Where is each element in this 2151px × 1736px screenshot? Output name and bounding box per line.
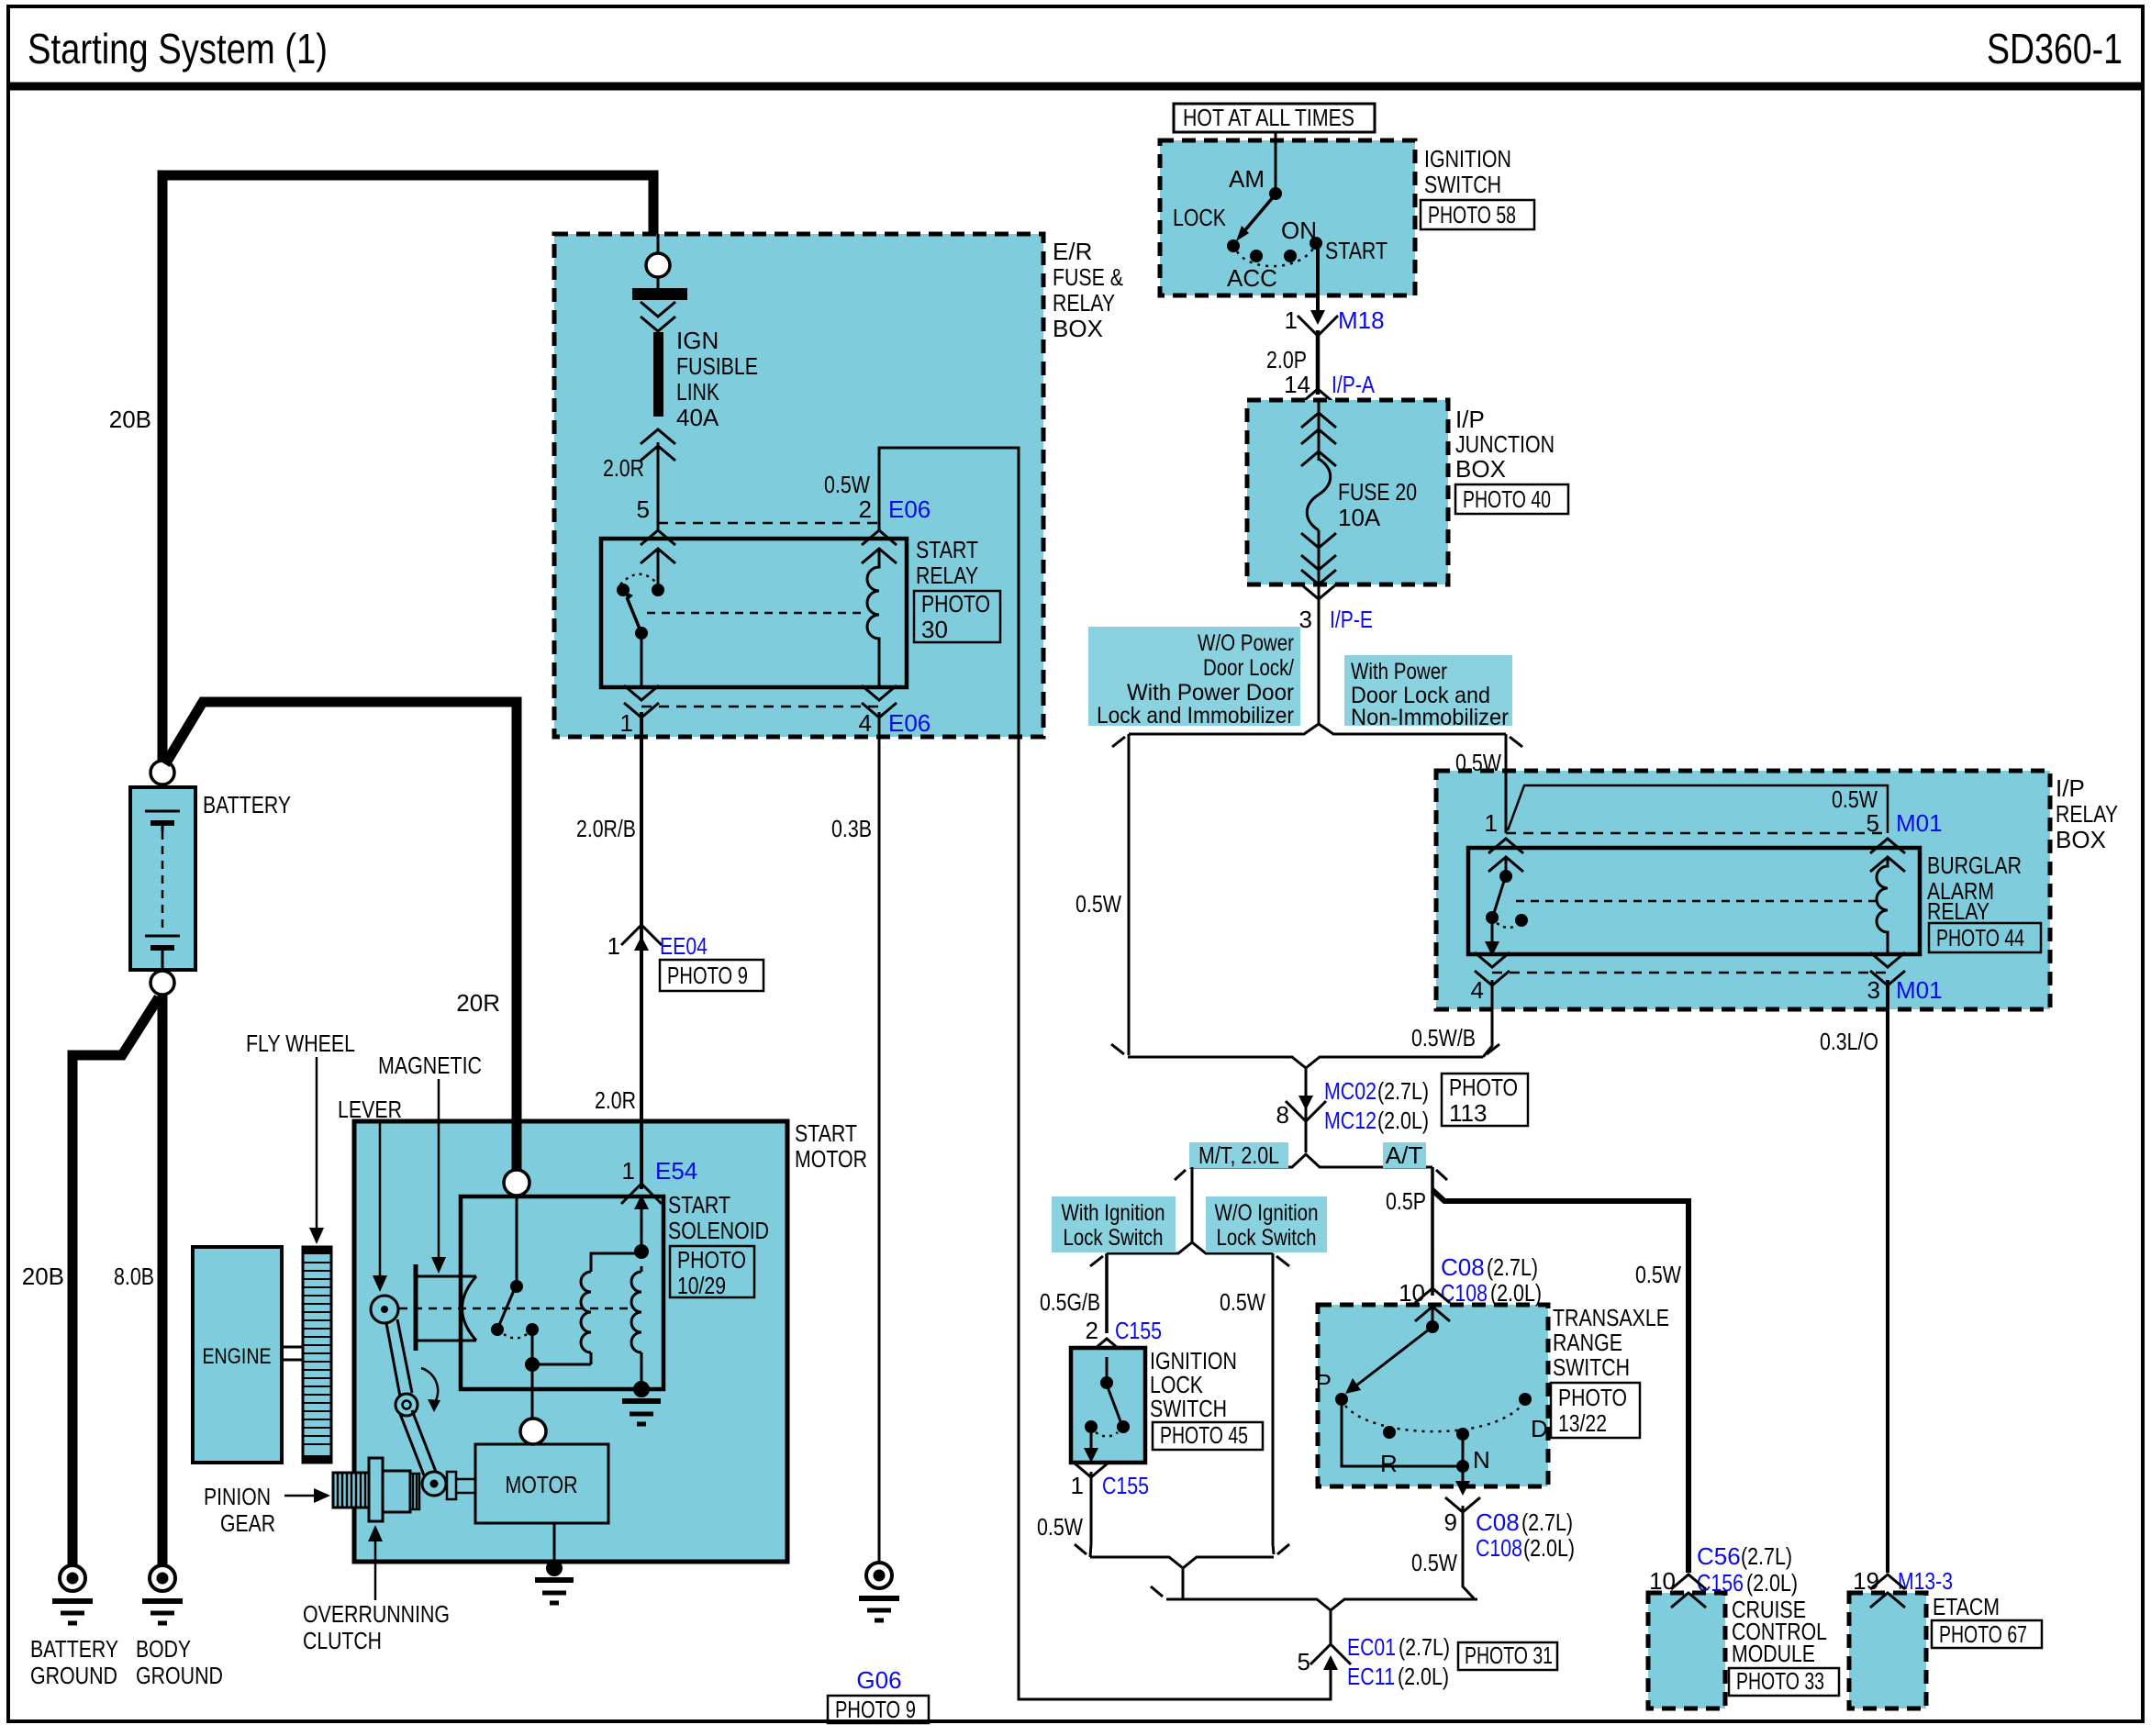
svg-text:E/R: E/R bbox=[1053, 238, 1092, 265]
svg-text:PINION: PINION bbox=[204, 1483, 271, 1510]
svg-text:PHOTO: PHOTO bbox=[921, 590, 990, 618]
svg-text:Non-Immobilizer: Non-Immobilizer bbox=[1351, 705, 1509, 730]
svg-text:10A: 10A bbox=[1338, 504, 1381, 531]
svg-text:With Ignition: With Ignition bbox=[1062, 1200, 1165, 1226]
label M/T, 2.0L bbox=[1189, 1142, 1288, 1168]
connector row E06 top bbox=[658, 522, 879, 525]
svg-text:ENGINE: ENGINE bbox=[203, 1344, 272, 1369]
svg-text:W/O Power: W/O Power bbox=[1198, 630, 1294, 656]
svg-text:20B: 20B bbox=[22, 1263, 64, 1290]
svg-text:(2.0L): (2.0L) bbox=[1746, 1569, 1798, 1597]
svg-text:Starting System (1): Starting System (1) bbox=[28, 25, 328, 72]
connector EC01/EC11 bbox=[1310, 1644, 1351, 1670]
svg-text:FUSIBLE: FUSIBLE bbox=[676, 352, 758, 380]
wire split bus bbox=[1129, 724, 1506, 734]
wire 0.5W right branch bbox=[1505, 734, 1508, 773]
fusible link IGN FUSIBLE LINK 40A bbox=[653, 332, 663, 417]
svg-text:13/22: 13/22 bbox=[1558, 1409, 1607, 1437]
svg-text:PHOTO 45: PHOTO 45 bbox=[1160, 1421, 1248, 1449]
svg-text:I/P-E: I/P-E bbox=[1330, 606, 1373, 633]
svg-text:ACC: ACC bbox=[1227, 264, 1277, 292]
wire 20R inside start motor bbox=[512, 1121, 522, 1172]
relay coil bbox=[867, 549, 879, 687]
svg-text:PHOTO: PHOTO bbox=[677, 1246, 746, 1274]
svg-text:SD360-1: SD360-1 bbox=[1987, 25, 2123, 72]
motor MOTOR bbox=[475, 1444, 608, 1523]
svg-text:Lock Switch: Lock Switch bbox=[1064, 1225, 1164, 1251]
wire 0.5P to cruise bbox=[1432, 1190, 1688, 1573]
solenoid hold coil bbox=[631, 1272, 641, 1352]
wire 0.5G/B bbox=[1105, 1253, 1109, 1333]
connector M18 bbox=[1298, 310, 1338, 336]
svg-text:PHOTO 40: PHOTO 40 bbox=[1463, 485, 1551, 513]
ground G06 bbox=[859, 1563, 899, 1620]
contact LOCK bbox=[1227, 239, 1240, 252]
svg-text:0.5W: 0.5W bbox=[824, 471, 870, 498]
wire and chevrons into fuse bbox=[1318, 400, 1321, 461]
svg-text:W/O Ignition: W/O Ignition bbox=[1215, 1200, 1319, 1226]
connector chevrons C155 pin 2 bbox=[1089, 1339, 1124, 1353]
svg-text:MAGNETIC: MAGNETIC bbox=[378, 1052, 482, 1079]
svg-text:A/T: A/T bbox=[1386, 1141, 1423, 1169]
svg-text:N: N bbox=[1473, 1446, 1490, 1474]
svg-text:BOX: BOX bbox=[1455, 455, 1506, 483]
svg-text:FUSE &: FUSE & bbox=[1053, 263, 1123, 291]
svg-text:PHOTO 31: PHOTO 31 bbox=[1465, 1641, 1553, 1669]
relay pin chevrons 4 and 3 bbox=[1475, 952, 1510, 967]
svg-text:8.0B: 8.0B bbox=[114, 1263, 154, 1290]
svg-text:4: 4 bbox=[859, 709, 872, 737]
svg-text:3: 3 bbox=[1867, 976, 1880, 1004]
svg-text:0.3L/O: 0.3L/O bbox=[1820, 1028, 1878, 1055]
ground body ground bbox=[142, 1565, 183, 1623]
svg-text:I/P: I/P bbox=[1455, 406, 1485, 433]
solenoid START SOLENOID bbox=[461, 1196, 663, 1389]
wire 0.5W W/O branch bbox=[1273, 1253, 1274, 1554]
svg-text:IGN: IGN bbox=[676, 327, 719, 354]
wire 0.5W runner from relay pin2 down page to EC01 bbox=[879, 448, 1331, 1699]
svg-text:PHOTO 58: PHOTO 58 bbox=[1428, 201, 1516, 228]
svg-text:BATTERY: BATTERY bbox=[203, 791, 291, 818]
svg-text:IGNITION: IGNITION bbox=[1424, 145, 1511, 172]
svg-text:(2.7L): (2.7L) bbox=[1741, 1542, 1792, 1570]
svg-text:5: 5 bbox=[637, 495, 650, 523]
svg-text:JUNCTION: JUNCTION bbox=[1455, 430, 1555, 458]
lock switch contacts bbox=[1106, 1357, 1109, 1378]
connector chevrons below terminal bbox=[641, 302, 675, 317]
lever arm bbox=[371, 1296, 398, 1323]
svg-text:1: 1 bbox=[607, 932, 620, 960]
contact ACC bbox=[1250, 250, 1263, 262]
engine ENGINE bbox=[193, 1247, 282, 1463]
wire below EC01 bbox=[1330, 1663, 1332, 1699]
relay pin chevrons 5 and 2 bbox=[641, 530, 675, 545]
node B+ terminal bbox=[504, 1170, 529, 1196]
node battery positive terminal bbox=[150, 761, 174, 785]
svg-text:C56: C56 bbox=[1697, 1542, 1741, 1570]
svg-text:G06: G06 bbox=[856, 1666, 901, 1694]
svg-text:BODY: BODY bbox=[136, 1635, 191, 1663]
svg-text:M01: M01 bbox=[1896, 976, 1943, 1004]
svg-text:RELAY: RELAY bbox=[916, 562, 978, 589]
battery BATTERY bbox=[130, 787, 195, 970]
wire 0.3B relay pin4 to ground bbox=[878, 712, 881, 1563]
svg-text:(2.7L): (2.7L) bbox=[1377, 1077, 1429, 1105]
node motor terminal bbox=[520, 1419, 546, 1444]
wire 0.3L/O pin 3 down to ETACM bbox=[1886, 980, 1889, 1573]
rotation arrow bbox=[421, 1368, 438, 1404]
svg-text:2: 2 bbox=[1086, 1317, 1098, 1344]
svg-text:RELAY: RELAY bbox=[1053, 289, 1115, 317]
label A/T bbox=[1383, 1142, 1426, 1168]
pinion gear bbox=[333, 1473, 369, 1508]
svg-text:0.5G/B: 0.5G/B bbox=[1040, 1288, 1100, 1316]
svg-text:(2.0L): (2.0L) bbox=[1490, 1279, 1542, 1307]
svg-text:SOLENOID: SOLENOID bbox=[668, 1217, 769, 1244]
title rule bbox=[8, 83, 2143, 91]
wire 2.0P bbox=[1316, 330, 1321, 395]
svg-text:(2.7L): (2.7L) bbox=[1399, 1633, 1450, 1661]
wire 0.5W/B pin 4 down bbox=[1483, 980, 1492, 1057]
svg-text:0.5P: 0.5P bbox=[1386, 1187, 1426, 1215]
pins 1 and 4 bbox=[624, 685, 659, 700]
svg-text:LEVER: LEVER bbox=[338, 1096, 402, 1123]
svg-text:P: P bbox=[1316, 1369, 1332, 1397]
svg-text:FUSE 20: FUSE 20 bbox=[1338, 478, 1417, 506]
svg-text:CLUTCH: CLUTCH bbox=[303, 1627, 382, 1654]
svg-text:BURGLAR: BURGLAR bbox=[1927, 851, 2022, 879]
svg-text:EE04: EE04 bbox=[660, 932, 708, 960]
node fusible link terminal bbox=[657, 234, 660, 254]
svg-text:TRANSAXLE: TRANSAXLE bbox=[1553, 1304, 1669, 1331]
wire merge bus bbox=[1128, 1057, 1483, 1068]
svg-text:0.5W: 0.5W bbox=[1075, 890, 1121, 918]
svg-text:BATTERY: BATTERY bbox=[30, 1635, 118, 1663]
wire solenoid to motor bbox=[531, 1372, 534, 1419]
svg-text:HOT AT ALL TIMES: HOT AT ALL TIMES bbox=[1183, 104, 1354, 131]
svg-text:30: 30 bbox=[921, 616, 948, 643]
wire merge bus lock switches bbox=[1090, 1557, 1274, 1568]
svg-text:C155: C155 bbox=[1115, 1317, 1162, 1344]
svg-text:D: D bbox=[1531, 1415, 1548, 1442]
svg-text:C108: C108 bbox=[1476, 1534, 1522, 1562]
label With Ignition Lock Switch bbox=[1052, 1196, 1176, 1252]
svg-text:M18: M18 bbox=[1338, 306, 1385, 334]
wire fuse output to I/P-E bbox=[1318, 530, 1321, 725]
svg-text:E06: E06 bbox=[888, 495, 931, 523]
svg-text:BOX: BOX bbox=[1053, 315, 1103, 342]
svg-text:MC12: MC12 bbox=[1324, 1107, 1376, 1134]
svg-text:C08: C08 bbox=[1476, 1508, 1520, 1536]
overrunning clutch assembly bbox=[369, 1458, 475, 1521]
svg-text:PHOTO 9: PHOTO 9 bbox=[835, 1696, 916, 1723]
connector EE04 bbox=[621, 925, 662, 951]
svg-text:5: 5 bbox=[1298, 1648, 1310, 1675]
svg-text:(2.7L): (2.7L) bbox=[1521, 1508, 1573, 1536]
connector chevrons above 2.0R bbox=[641, 429, 675, 444]
svg-text:PHOTO 44: PHOTO 44 bbox=[1936, 924, 2024, 951]
svg-text:PHOTO: PHOTO bbox=[1449, 1074, 1518, 1101]
svg-text:2: 2 bbox=[859, 495, 872, 523]
svg-text:LOCK: LOCK bbox=[1173, 204, 1227, 231]
ground battery ground bbox=[52, 1565, 93, 1623]
ground solenoid bbox=[622, 1381, 661, 1424]
relay pin chevrons 1 and 5 bbox=[1488, 839, 1523, 853]
svg-text:1: 1 bbox=[1285, 306, 1298, 334]
wire 2.0R/B relay pin1 down bbox=[640, 712, 643, 1184]
svg-text:PHOTO: PHOTO bbox=[1558, 1384, 1627, 1411]
svg-text:MOTOR: MOTOR bbox=[506, 1471, 578, 1498]
relay switch contacts bbox=[1505, 857, 1508, 872]
svg-text:113: 113 bbox=[1449, 1099, 1487, 1127]
svg-text:9: 9 bbox=[1444, 1508, 1457, 1536]
wire 0.5W left branch bbox=[1128, 734, 1131, 1055]
svg-text:2.0R: 2.0R bbox=[595, 1086, 636, 1114]
svg-text:(2.7L): (2.7L) bbox=[1487, 1253, 1538, 1281]
svg-text:20B: 20B bbox=[109, 406, 151, 433]
svg-text:3: 3 bbox=[1299, 606, 1312, 633]
svg-text:Lock Switch: Lock Switch bbox=[1217, 1225, 1317, 1251]
relay coil bbox=[1877, 857, 1888, 954]
svg-text:AM: AM bbox=[1229, 165, 1265, 193]
svg-text:40A: 40A bbox=[676, 404, 719, 431]
svg-text:GEAR: GEAR bbox=[220, 1509, 275, 1537]
range switch rotor bbox=[1432, 1307, 1434, 1325]
svg-text:2.0R/B: 2.0R/B bbox=[576, 815, 636, 842]
contact ON/START bbox=[1310, 237, 1322, 250]
svg-text:4: 4 bbox=[1471, 976, 1484, 1004]
svg-text:FLY WHEEL: FLY WHEEL bbox=[246, 1029, 355, 1057]
svg-text:0.5W: 0.5W bbox=[1220, 1288, 1265, 1316]
svg-text:0.5W: 0.5W bbox=[1411, 1549, 1457, 1576]
svg-text:START: START bbox=[795, 1119, 857, 1147]
svg-text:5: 5 bbox=[1867, 809, 1879, 837]
svg-text:RELAY: RELAY bbox=[2056, 800, 2118, 828]
wire 2.0R inside start motor bbox=[640, 1121, 643, 1189]
svg-text:10/29: 10/29 bbox=[677, 1272, 726, 1299]
wire 8.0B body ground bbox=[158, 995, 168, 1564]
svg-text:SWITCH: SWITCH bbox=[1424, 171, 1501, 198]
svg-text:I/P-A: I/P-A bbox=[1332, 371, 1376, 398]
svg-text:SWITCH: SWITCH bbox=[1150, 1395, 1227, 1422]
wire 0.5W out of lock switch bbox=[1090, 1472, 1091, 1557]
relay mech link dashed bbox=[647, 612, 866, 615]
svg-text:Lock and Immobilizer: Lock and Immobilizer bbox=[1097, 703, 1294, 729]
svg-text:E06: E06 bbox=[888, 709, 931, 737]
svg-text:0.5W: 0.5W bbox=[1037, 1513, 1083, 1541]
terminal bar bbox=[632, 288, 687, 300]
svg-text:(2.0L): (2.0L) bbox=[1377, 1107, 1429, 1134]
label W/O Ignition Lock Switch bbox=[1206, 1196, 1327, 1252]
node battery negative terminal bbox=[150, 971, 174, 995]
svg-text:ETACM: ETACM bbox=[1933, 1593, 2000, 1620]
switch rotor AM bbox=[1269, 187, 1282, 200]
svg-text:E54: E54 bbox=[655, 1157, 697, 1185]
svg-text:(2.0L): (2.0L) bbox=[1398, 1663, 1449, 1690]
svg-text:GROUND: GROUND bbox=[136, 1662, 223, 1689]
wire 2.0R to relay pin 5 bbox=[657, 442, 660, 530]
svg-text:0.5W/B: 0.5W/B bbox=[1411, 1024, 1476, 1052]
fuse FUSE 20 10A bbox=[1307, 459, 1331, 530]
svg-text:2.0P: 2.0P bbox=[1266, 346, 1307, 373]
svg-text:20R: 20R bbox=[456, 989, 500, 1017]
relay START RELAY bbox=[601, 539, 907, 687]
svg-text:M01: M01 bbox=[1896, 809, 1943, 837]
plunger magnetic core bbox=[414, 1264, 418, 1351]
svg-text:C155: C155 bbox=[1102, 1472, 1149, 1499]
box IGNITION SWITCH bbox=[1160, 140, 1415, 295]
wire 0.5W from range switch bbox=[1463, 1506, 1474, 1598]
wire 20B battery ground bbox=[72, 997, 159, 1564]
svg-text:1: 1 bbox=[622, 1157, 635, 1185]
ground motor bbox=[535, 1560, 574, 1603]
svg-text:I/P: I/P bbox=[2056, 774, 2085, 802]
box START MOTOR bbox=[354, 1121, 787, 1562]
svg-text:PHOTO 67: PHOTO 67 bbox=[1939, 1620, 2027, 1648]
svg-text:10: 10 bbox=[1399, 1279, 1425, 1307]
svg-text:2.0R: 2.0R bbox=[603, 454, 644, 482]
svg-text:PHOTO 33: PHOTO 33 bbox=[1736, 1667, 1824, 1695]
connector MC02/MC12 bbox=[1286, 1096, 1326, 1121]
wire merge bus to EC01 bbox=[1166, 1599, 1477, 1610]
svg-text:1: 1 bbox=[620, 709, 633, 737]
svg-text:1: 1 bbox=[1071, 1472, 1084, 1499]
svg-text:START: START bbox=[916, 536, 978, 563]
svg-text:SWITCH: SWITCH bbox=[1553, 1353, 1630, 1381]
relay link dashed bbox=[1516, 900, 1876, 903]
svg-text:BOX: BOX bbox=[2056, 826, 2106, 853]
wire to coils bbox=[532, 1363, 591, 1366]
svg-text:RANGE: RANGE bbox=[1553, 1329, 1622, 1356]
svg-text:M/T, 2.0L: M/T, 2.0L bbox=[1198, 1141, 1279, 1169]
switch contacts bbox=[652, 584, 664, 596]
flywheel FLY WHEEL gear bbox=[303, 1247, 331, 1463]
svg-text:With Power Door: With Power Door bbox=[1127, 680, 1294, 706]
svg-text:R: R bbox=[1380, 1450, 1398, 1477]
bus end whiskers bbox=[1112, 737, 1125, 747]
wire 20B battery to fuse box (thick) bbox=[162, 175, 653, 767]
relay BURGLAR ALARM RELAY bbox=[1468, 848, 1920, 954]
wire feed to relay pins 1 and 5 bbox=[1505, 773, 1508, 833]
svg-text:MOTOR: MOTOR bbox=[795, 1145, 867, 1173]
wire START output bbox=[1316, 249, 1320, 317]
wire from hot feed bbox=[1275, 132, 1277, 189]
svg-text:EC11: EC11 bbox=[1347, 1663, 1395, 1690]
svg-text:8: 8 bbox=[1276, 1101, 1289, 1129]
svg-text:LINK: LINK bbox=[676, 378, 720, 406]
wire split bus M/T vs A/T bbox=[1189, 1154, 1432, 1167]
svg-text:(2.0L): (2.0L) bbox=[1523, 1534, 1575, 1562]
mech link dashed bbox=[385, 1308, 635, 1310]
connector row M01 top bbox=[1506, 832, 1888, 835]
svg-text:14: 14 bbox=[1284, 371, 1310, 398]
svg-text:GROUND: GROUND bbox=[30, 1662, 117, 1689]
label HOT AT ALL TIMES bbox=[1174, 104, 1375, 132]
connector I/P-A bbox=[1300, 389, 1335, 404]
svg-text:0.3B: 0.3B bbox=[831, 815, 872, 842]
label With Power Door Lock and Non-Immobilizer bbox=[1344, 655, 1512, 726]
svg-text:C08: C08 bbox=[1441, 1253, 1485, 1281]
svg-text:START: START bbox=[1325, 237, 1388, 264]
svg-text:MODULE: MODULE bbox=[1732, 1640, 1815, 1667]
solenoid switch contacts bbox=[516, 1196, 518, 1283]
wire M/T branch bbox=[1191, 1167, 1194, 1242]
svg-text:Door Lock/: Door Lock/ bbox=[1203, 655, 1294, 681]
svg-text:ON: ON bbox=[1281, 217, 1317, 244]
label W/O Power Door Lock/With Power Door Lock and Immobilizer bbox=[1088, 627, 1300, 726]
svg-text:EC01: EC01 bbox=[1347, 1633, 1396, 1661]
solenoid pull-in coil bbox=[590, 1352, 593, 1364]
svg-text:PHOTO 9: PHOTO 9 bbox=[667, 962, 748, 989]
svg-text:With Power: With Power bbox=[1351, 659, 1447, 684]
svg-text:MC02: MC02 bbox=[1324, 1077, 1376, 1105]
wire 20R battery to start motor (thick) bbox=[165, 702, 517, 1172]
svg-text:START: START bbox=[668, 1191, 730, 1219]
svg-text:RELAY: RELAY bbox=[1927, 897, 1989, 925]
svg-text:1: 1 bbox=[1485, 809, 1498, 837]
svg-text:0.5W: 0.5W bbox=[1635, 1261, 1681, 1288]
wire A/T branch bbox=[1431, 1167, 1434, 1296]
svg-text:OVERRUNNING: OVERRUNNING bbox=[303, 1600, 450, 1628]
